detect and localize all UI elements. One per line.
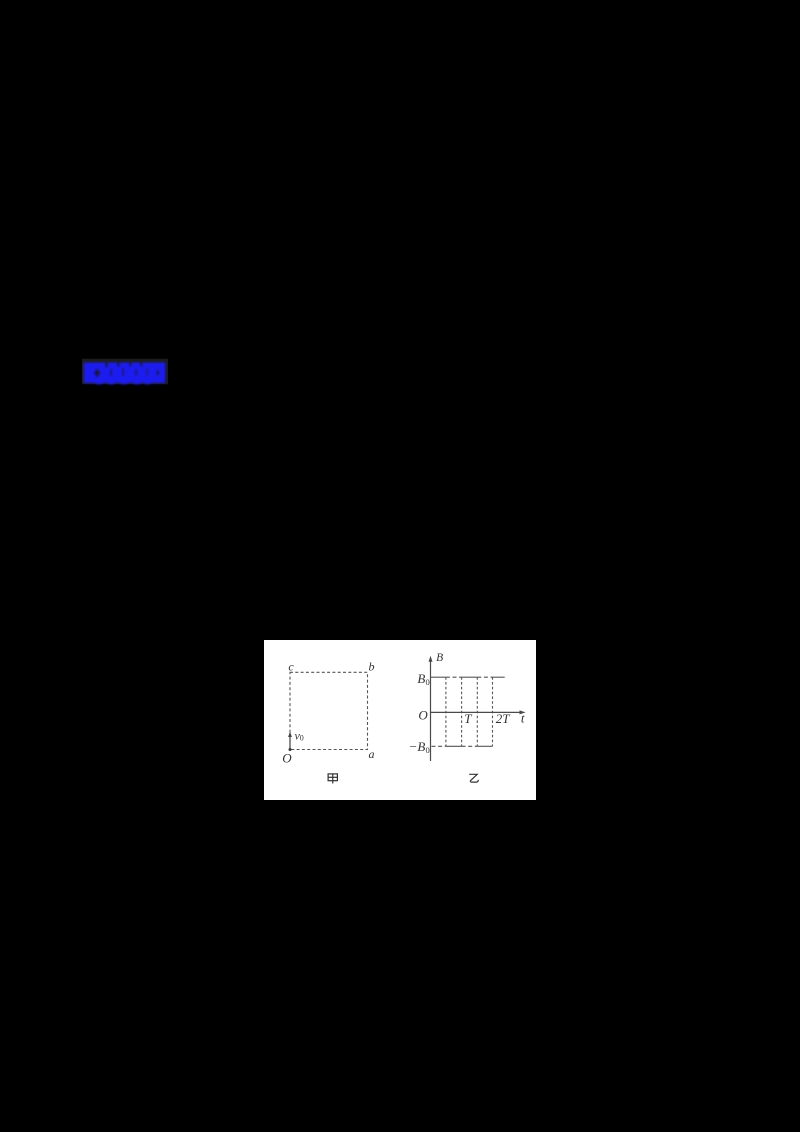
svg-text:O: O (418, 707, 428, 722)
svg-text:T: T (464, 711, 472, 726)
white figure panel (264, 640, 536, 800)
bottom level dashed guides (432, 745, 478, 747)
t axis (431, 711, 523, 713)
svg-text:0: 0 (300, 733, 304, 742)
velocity arrow v0 (289, 736, 291, 750)
dashed square field region O-a-b-c (290, 672, 368, 749)
svg-text:B: B (436, 652, 443, 664)
waveform top level +B0 solid segments (431, 676, 505, 678)
svg-text:0: 0 (426, 745, 430, 755)
svg-text:a: a (369, 747, 375, 761)
waveform bottom level -B0 solid segments (446, 745, 493, 747)
svg-text:2T: 2T (496, 711, 511, 726)
svg-text:−B: −B (409, 739, 426, 754)
svg-text:B: B (417, 671, 425, 686)
svg-text:c: c (288, 660, 294, 674)
highlighted blue caption block (74, 352, 184, 394)
svg-text:b: b (369, 660, 375, 674)
caption glyph yi (469, 774, 478, 782)
blue blurred text blob (84, 363, 166, 385)
caption glyph jia (328, 774, 337, 784)
B axis (430, 659, 432, 761)
top level dashed guides (446, 676, 493, 678)
point O dot (289, 748, 292, 751)
svg-text:O: O (282, 751, 292, 766)
vertical dashed transition lines (446, 677, 493, 746)
svg-text:0: 0 (426, 677, 430, 687)
svg-text:t: t (521, 710, 525, 725)
caption background box (82, 359, 168, 385)
